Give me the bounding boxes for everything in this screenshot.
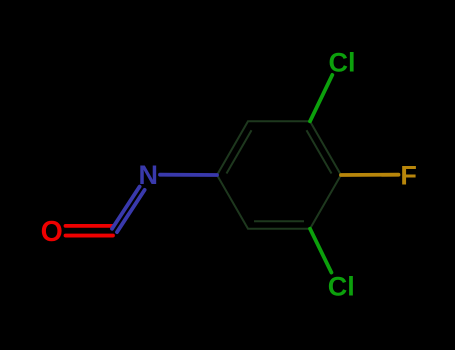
aromatic inner bond C1=C2 (upper-left) [227,130,252,173]
svg-text:O: O [41,216,63,248]
double bond C=N line 1 [117,190,145,232]
benzene ring [217,121,341,228]
bond N-C1(ring) [160,173,217,177]
bond C5-Cl (bottom) [310,229,331,273]
aromatic inner bond C3=C4 (upper-right) [307,130,332,173]
bond C3-Cl (top) [310,75,332,121]
double bond C=O line 2 [66,234,114,238]
aromatic inner bond C5=C6 (bottom) [254,220,304,222]
double bond C=N line 2 [112,187,140,229]
svg-text:N: N [139,160,159,190]
svg-text:Cl: Cl [328,272,355,302]
svg-text:Cl: Cl [329,48,356,78]
svg-text:F: F [400,161,417,191]
double bond C=O line 1 [66,224,114,228]
bond C4-F [341,173,399,177]
